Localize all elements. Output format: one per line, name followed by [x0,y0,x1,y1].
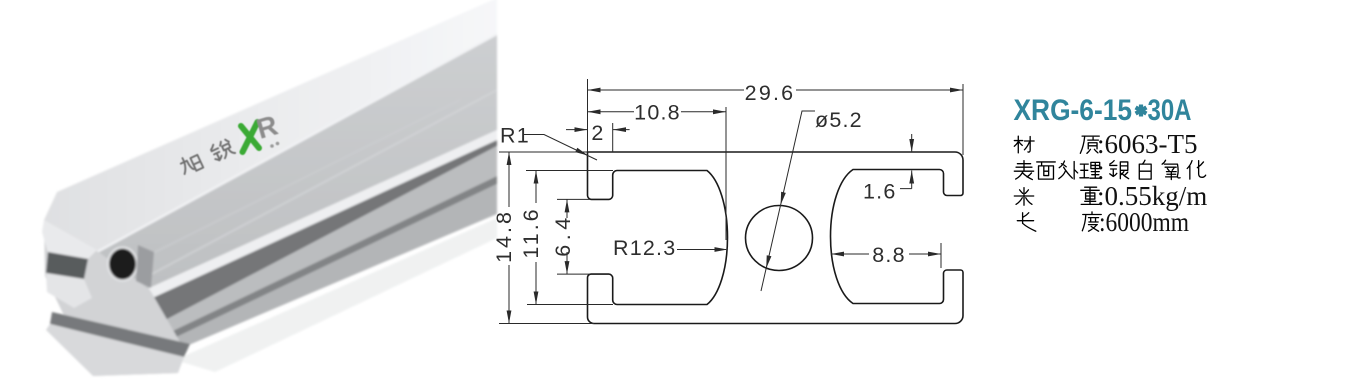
svg-text:1.6: 1.6 [863,180,897,204]
svg-text:30A: 30A [1148,94,1192,127]
svg-text:6.4: 6.4 [551,213,575,256]
svg-text:XRG-6-15: XRG-6-15 [1014,94,1133,127]
svg-text:ø5.2: ø5.2 [815,108,863,132]
svg-text:R1: R1 [500,124,530,148]
svg-text:10.8: 10.8 [634,101,681,125]
svg-text::6000mm: :6000mm [1099,207,1189,237]
svg-text:29.6: 29.6 [745,81,796,105]
svg-text:11.6: 11.6 [519,206,543,258]
svg-text::6063-T5: :6063-T5 [1097,129,1198,159]
svg-text:R12.3: R12.3 [613,236,676,260]
svg-text:2: 2 [591,121,604,145]
svg-text:8.8: 8.8 [872,243,906,267]
svg-text:14.8: 14.8 [492,209,516,263]
